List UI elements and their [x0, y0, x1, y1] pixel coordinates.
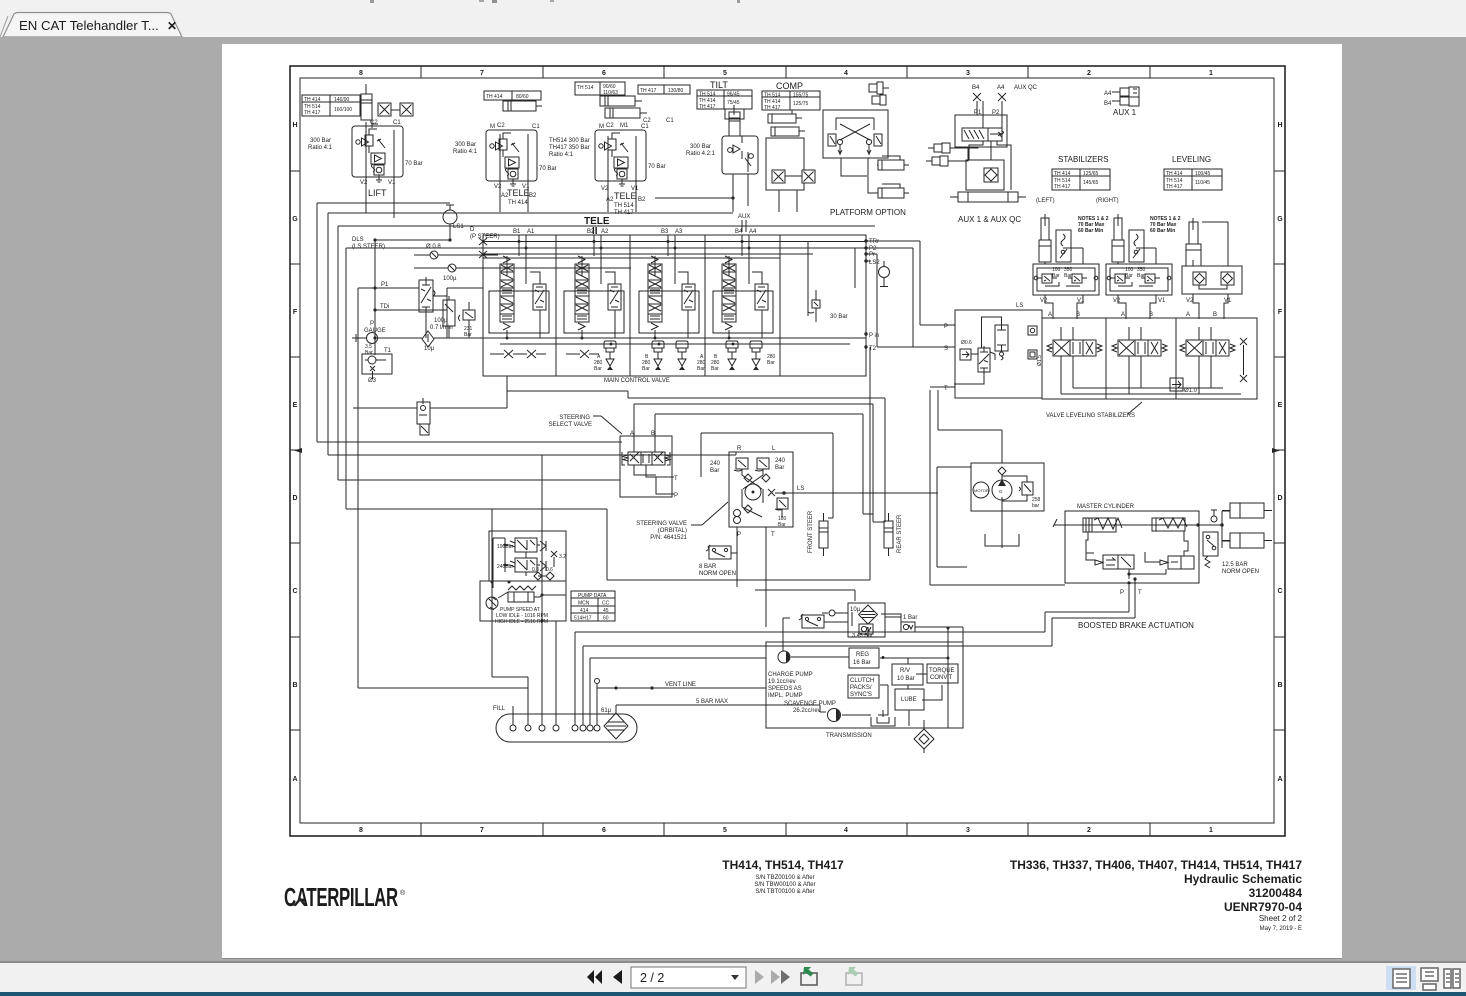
table TELE2 b	[638, 85, 690, 94]
solenoid valve lift 1	[378, 103, 391, 116]
priority box	[955, 310, 1042, 398]
svg-text:H: H	[1277, 122, 1282, 129]
svg-text:C1: C1	[641, 124, 649, 130]
long return wires left	[492, 241, 920, 621]
svg-text:(ORBITAL): (ORBITAL)	[658, 528, 687, 534]
wire T2 down	[607, 347, 870, 580]
wire TDi	[375, 310, 447, 338]
svg-text:A: A	[630, 431, 634, 437]
svg-text:FRONT STEER: FRONT STEER	[808, 510, 814, 553]
svg-text:155/75: 155/75	[793, 93, 809, 99]
wire t6 vertical P1 feed	[374, 255, 376, 355]
svg-text:70 Bar: 70 Bar	[648, 164, 666, 170]
MCV section 2 spool	[575, 256, 589, 330]
wires tele2 down	[608, 136, 636, 212]
wire from DLS to LS1	[375, 240, 450, 255]
stabilizer left port labels	[1040, 298, 1085, 318]
vent fitting	[822, 608, 848, 622]
svg-text:MAIN CONTROL VALVE: MAIN CONTROL VALVE	[604, 378, 670, 384]
svg-text:Bar: Bar	[767, 360, 775, 366]
svg-text:P/N: 4641521: P/N: 4641521	[650, 535, 687, 541]
vent pressure switch	[799, 614, 824, 628]
svg-text:PUMP DATA: PUMP DATA	[578, 593, 607, 599]
REG box	[849, 648, 879, 668]
orbital relief 1	[734, 458, 748, 471]
svg-text:B2: B2	[587, 229, 595, 235]
svg-text:A: A	[1186, 312, 1190, 318]
MCV section 1 compensator	[533, 284, 546, 310]
tele1 cylinder	[503, 101, 542, 111]
svg-text:100µ: 100µ	[434, 318, 448, 324]
orbital LS wire	[775, 492, 938, 494]
svg-text:A3: A3	[675, 229, 683, 235]
svg-text:Ratio 4:1: Ratio 4:1	[453, 149, 478, 155]
orbital valve box	[729, 452, 793, 527]
MCV port dots	[864, 239, 867, 348]
svg-text:70 Bar: 70 Bar	[405, 161, 423, 167]
notes text 2	[1150, 216, 1181, 234]
svg-text:V1: V1	[388, 180, 396, 186]
svg-text:V1: V1	[1158, 298, 1166, 304]
svg-text:Bar: Bar	[775, 465, 784, 471]
svg-text:V2: V2	[360, 180, 368, 186]
table COMP	[762, 91, 820, 110]
svg-text:Bar: Bar	[1052, 273, 1060, 279]
switch connector	[824, 612, 852, 626]
orbital relief 2	[755, 458, 769, 471]
svg-text:514H17: 514H17	[574, 616, 592, 622]
svg-text:STEERING: STEERING	[559, 415, 590, 421]
wire sn4	[701, 433, 833, 518]
svg-text:TH 514: TH 514	[764, 93, 781, 99]
MCV bottom rails	[483, 338, 866, 344]
MCV section 3 sub-box	[639, 291, 699, 333]
wire P2 TRr to priority	[866, 241, 920, 347]
svg-text:TH417 350 Bar: TH417 350 Bar	[549, 145, 590, 151]
svg-text:B: B	[292, 682, 297, 689]
orbital inlet circles	[734, 510, 741, 524]
MCV section 2 compensator	[608, 284, 621, 310]
motor pump box	[971, 463, 1044, 511]
svg-text:Bar: Bar	[365, 350, 373, 356]
wire MCV inlet left	[375, 288, 483, 355]
table TELE2 a	[575, 82, 625, 95]
MCV right side 30Bar relief	[808, 290, 820, 322]
svg-text:125/75: 125/75	[793, 101, 809, 107]
leveling cylinder	[1186, 218, 1201, 266]
platform cylinder 1	[878, 156, 909, 170]
stab left directional valve	[1047, 340, 1102, 356]
svg-text:5: 5	[723, 827, 727, 834]
svg-text:V2: V2	[1186, 298, 1194, 304]
svg-text:Ø1.0: Ø1.0	[1184, 388, 1198, 394]
svg-text:E: E	[1278, 402, 1283, 409]
comp cylinders	[768, 110, 805, 136]
MCV right port labels	[869, 239, 880, 352]
label P S T	[944, 324, 948, 392]
stabilizer right port labels	[1113, 298, 1166, 318]
svg-text:TH 514: TH 514	[577, 85, 594, 91]
accumulator 1	[1222, 503, 1272, 518]
svg-text:REG: REG	[856, 652, 869, 658]
platform option valve box	[823, 110, 888, 158]
svg-text:A: A	[1277, 776, 1282, 783]
bottom toolbar	[0, 963, 1466, 992]
motor circle	[973, 482, 989, 498]
svg-text:S/N TBW00100 & After: S/N TBW00100 & After	[754, 882, 815, 888]
svg-text:300 Bar: 300 Bar	[310, 138, 331, 144]
manifold internal wires	[1061, 327, 1241, 394]
svg-text:C1: C1	[393, 120, 401, 126]
svg-text:Ø3: Ø3	[368, 378, 377, 384]
svg-text:2: 2	[1087, 827, 1091, 834]
svg-text:100/45: 100/45	[1195, 171, 1211, 177]
svg-text:3: 3	[966, 827, 970, 834]
svg-text:TRr: TRr	[869, 239, 879, 245]
svg-text:TRANSMISSION: TRANSMISSION	[826, 733, 872, 739]
svg-text:B: B	[651, 431, 655, 437]
brake box dots	[491, 544, 544, 623]
steering select spool	[622, 452, 670, 465]
rear steer cylinder	[884, 513, 893, 556]
table LEVELING	[1164, 169, 1222, 190]
comp valve box	[766, 138, 804, 190]
wire return 2	[583, 600, 1135, 725]
svg-text:4: 4	[844, 827, 848, 834]
stabilizer left wires	[1045, 248, 1083, 319]
pointer	[593, 416, 622, 434]
orifice diamonds 0.8 0.6	[534, 572, 554, 580]
schematic border frame	[290, 66, 1285, 836]
brake light switch 8bar	[706, 545, 731, 559]
gerotor dot	[752, 491, 755, 494]
svg-text:P1: P1	[974, 110, 982, 116]
wire cyl to valves	[372, 110, 400, 128]
steering select T P wires	[646, 473, 674, 494]
svg-text:G: G	[999, 489, 1003, 494]
MCV port relief A2	[604, 341, 616, 370]
svg-text:Bar: Bar	[594, 366, 602, 372]
vent wires	[755, 590, 963, 637]
MCV inlet X marks	[479, 238, 487, 258]
svg-text:A2: A2	[601, 229, 609, 235]
MCV section 2 wires	[582, 235, 615, 338]
wire t2	[328, 213, 736, 455]
tank filter diamond	[604, 713, 628, 739]
svg-text:(P STEER): (P STEER)	[470, 234, 500, 240]
junction dots left	[373, 238, 451, 339]
lift control valve body	[352, 126, 403, 182]
acc valve circle	[1211, 510, 1217, 522]
svg-text:TH 414: TH 414	[1166, 171, 1183, 177]
filter 0.7 lmin	[443, 296, 455, 338]
labels M C2 M1 C1 tele2	[599, 123, 649, 130]
comp solenoid 1	[772, 170, 785, 183]
comp solenoid 2	[802, 170, 815, 183]
tank inlet wires	[492, 600, 1135, 725]
svg-text:TH 417: TH 417	[1054, 184, 1071, 190]
leveling wires	[1193, 222, 1228, 319]
svg-text:A1: A1	[527, 229, 535, 235]
svg-text:Pr: Pr	[869, 252, 875, 258]
svg-text:D: D	[292, 495, 297, 502]
svg-text:75/45: 75/45	[727, 100, 740, 106]
svg-text:1: 1	[1209, 70, 1213, 77]
svg-text:Ø0.6: Ø0.6	[961, 340, 972, 346]
svg-text:8: 8	[359, 70, 363, 77]
svg-text:TH 514: TH 514	[614, 203, 634, 209]
orbital bottom check	[744, 505, 752, 513]
svg-text:8 BAR: 8 BAR	[699, 564, 717, 570]
wire drain valve	[541, 621, 543, 725]
svg-text:0.8: 0.8	[532, 567, 539, 573]
svg-text:LS: LS	[797, 486, 804, 492]
labels C2 C1 tele2 cyl	[643, 118, 674, 124]
MCV port relief A3b	[676, 341, 688, 370]
MCV port relief B3	[652, 341, 664, 370]
labels tele2 ports	[601, 186, 646, 203]
svg-text:(RIGHT): (RIGHT)	[1096, 198, 1119, 204]
table STABILIZERS	[1052, 169, 1110, 190]
svg-text:7: 7	[480, 70, 484, 77]
svg-text:6: 6	[602, 827, 606, 834]
svg-text:G: G	[1277, 216, 1283, 223]
svg-text:S/N TBT00100 & After: S/N TBT00100 & After	[755, 889, 814, 895]
aux pipes	[742, 220, 746, 232]
svg-text:AUX: AUX	[738, 214, 750, 220]
orbital relief 180	[775, 498, 788, 517]
aux qc base plates	[950, 192, 1026, 202]
svg-text:Bar: Bar	[778, 522, 786, 528]
transmission dots	[882, 627, 950, 660]
svg-text:TDi: TDi	[380, 304, 389, 310]
svg-text:5 BAR MAX: 5 BAR MAX	[696, 699, 728, 705]
svg-text:M1: M1	[620, 123, 629, 129]
filter diamond 10u	[859, 605, 878, 624]
svg-text:SYNC'S: SYNC'S	[850, 692, 872, 698]
svg-text:146/90: 146/90	[334, 97, 350, 103]
filter 10u	[398, 331, 624, 347]
MCV port relief B4	[750, 341, 762, 370]
svg-text:Bar: Bar	[1064, 273, 1072, 279]
svg-text:4: 4	[844, 70, 848, 77]
svg-text:Ratio 4:1: Ratio 4:1	[549, 152, 574, 158]
LS2 gauge	[879, 261, 890, 287]
orbital cross wires	[742, 469, 763, 517]
svg-text:C2: C2	[370, 120, 378, 126]
svg-text:19.1cc/rev: 19.1cc/rev	[768, 679, 796, 685]
solenoid valve 240bar	[510, 558, 537, 572]
svg-text:TH 417: TH 417	[640, 88, 657, 94]
switch to P wire	[731, 552, 737, 554]
svg-text:C2: C2	[606, 123, 614, 129]
MCV section 4 compensator	[755, 284, 768, 310]
stabilizer left cylinder	[1039, 214, 1051, 262]
svg-text:TH 514: TH 514	[699, 92, 716, 98]
master cylinder box	[1065, 511, 1199, 583]
leveling block	[1182, 266, 1242, 294]
svg-text:LEVELING: LEVELING	[1172, 155, 1211, 164]
svg-text:TH 414: TH 414	[304, 97, 321, 103]
svg-text:P in: P in	[869, 333, 879, 339]
svg-text:V1: V1	[1224, 298, 1232, 304]
svg-text:P: P	[370, 321, 374, 327]
svg-text:P: P	[737, 532, 741, 538]
svg-text:Bar: Bar	[711, 366, 719, 372]
svg-text:Bar: Bar	[697, 366, 705, 372]
svg-text:TORQUE: TORQUE	[929, 668, 955, 674]
svg-text:26.2cc/rev: 26.2cc/rev	[793, 708, 821, 714]
MCV shutoff X 3	[566, 350, 599, 358]
svg-text:Bar: Bar	[1137, 273, 1145, 279]
svg-text:T: T	[1138, 590, 1142, 596]
MCV section 4 wires	[729, 235, 762, 338]
pump lower box	[480, 581, 566, 621]
junction dots tank	[614, 686, 653, 689]
svg-text:60 Bar Min: 60 Bar Min	[1078, 228, 1103, 234]
AUX1 fitting A4	[1104, 87, 1139, 97]
svg-text:CONV'T: CONV'T	[930, 675, 952, 681]
tank body	[496, 714, 637, 742]
wire t4	[346, 248, 607, 580]
MCV port labels top	[513, 229, 757, 235]
svg-text:240: 240	[775, 458, 786, 464]
svg-text:80/60: 80/60	[516, 94, 529, 100]
aux qc directional valve	[962, 128, 1004, 141]
svg-text:B2: B2	[529, 193, 537, 199]
svg-text:C: C	[1277, 588, 1282, 595]
svg-text:B4: B4	[972, 85, 980, 91]
tele1 valve body	[486, 130, 537, 186]
svg-text:TH 417: TH 417	[699, 104, 716, 110]
svg-text:MOTOR: MOTOR	[974, 488, 989, 493]
acc trunk	[1199, 511, 1230, 548]
svg-text:Bar: Bar	[642, 366, 650, 372]
svg-text:SPEEDS AS: SPEEDS AS	[768, 686, 802, 692]
svg-text:45: 45	[603, 608, 609, 614]
svg-text:M: M	[599, 124, 604, 130]
LUBE box	[895, 689, 924, 710]
transmission box	[766, 642, 963, 728]
svg-text:CC: CC	[602, 601, 610, 607]
X plug top	[1240, 338, 1247, 375]
brake valve outer box	[489, 531, 566, 581]
notes text 1	[1078, 216, 1109, 234]
wire scavenge to sump	[842, 710, 883, 717]
svg-text:Ø 0.8: Ø 0.8	[426, 244, 441, 250]
gerotor circle	[745, 484, 761, 500]
svg-text:BOOSTED BRAKE ACTUATION: BOOSTED BRAKE ACTUATION	[1078, 621, 1194, 630]
svg-text:3.2: 3.2	[559, 554, 566, 560]
svg-text:8: 8	[359, 827, 363, 834]
aux qc quick couplers	[926, 143, 950, 166]
platform cylinder 2	[868, 165, 909, 198]
svg-text:V2: V2	[494, 184, 502, 190]
svg-text:STEERING VALVE: STEERING VALVE	[636, 521, 687, 527]
svg-text:✕: ✕	[167, 19, 177, 33]
svg-text:AUX 1: AUX 1	[1113, 108, 1137, 117]
svg-text:96/45: 96/45	[727, 92, 740, 98]
svg-text:6: 6	[602, 70, 606, 77]
wire return 1	[575, 600, 1129, 725]
relief small 2	[540, 561, 546, 571]
wire from charge area up	[783, 618, 790, 651]
manifold box	[1042, 318, 1257, 399]
pressure switch 12.5	[1203, 532, 1218, 568]
svg-text:145/65: 145/65	[1083, 180, 1099, 186]
svg-text:60 Bar Min: 60 Bar Min	[1150, 228, 1175, 234]
stab right directional valve	[1112, 340, 1167, 356]
wire P1 to valve	[375, 288, 447, 296]
svg-text:P2: P2	[992, 110, 1000, 116]
wire t5	[358, 288, 528, 688]
svg-text:R/V: R/V	[900, 668, 910, 674]
MCV right verticals	[808, 241, 855, 316]
aux qc labels P1 P2	[974, 110, 1000, 116]
stabilizer right wires	[1118, 248, 1156, 319]
svg-text:125/65: 125/65	[1083, 171, 1099, 177]
svg-text:A4: A4	[997, 85, 1005, 91]
tilt valve body	[722, 136, 758, 174]
CLUTCH box	[848, 675, 879, 698]
svg-text:160/100: 160/100	[334, 107, 352, 113]
wire from brake box right	[542, 594, 566, 596]
table TILT	[697, 90, 752, 109]
MCV shutoff X 2	[523, 350, 546, 358]
svg-text:B1: B1	[513, 229, 521, 235]
svg-text:TELE: TELE	[614, 191, 637, 201]
orifice 1.0	[1170, 378, 1183, 391]
solenoid valve lift 2	[400, 103, 413, 116]
svg-text:D: D	[470, 227, 475, 233]
svg-text:Bar: Bar	[1125, 273, 1133, 279]
stabilizer right holding block	[1106, 264, 1172, 295]
svg-text:P1: P1	[381, 282, 389, 288]
svg-text:240: 240	[710, 461, 721, 467]
svg-text:60: 60	[603, 616, 609, 622]
wire pump to tank	[1001, 475, 1003, 548]
platform internals	[828, 118, 882, 155]
rail junction dots	[506, 240, 751, 346]
tele2 valve body	[595, 130, 646, 186]
svg-text:P: P	[674, 493, 678, 499]
5bar wire	[616, 705, 826, 713]
svg-text:®: ®	[400, 889, 406, 897]
wires tilt down	[655, 174, 748, 212]
svg-text:A2: A2	[606, 197, 614, 203]
svg-text:(LEFT): (LEFT)	[1036, 198, 1055, 204]
scavenge pump circle	[828, 709, 841, 722]
orbital P T wires	[737, 527, 766, 627]
svg-text:CLUTCH: CLUTCH	[850, 678, 874, 684]
svg-text:PLATFORM OPTION: PLATFORM OPTION	[830, 208, 906, 217]
svg-text:TH336, TH337, TH406, TH407, TH: TH336, TH337, TH406, TH407, TH414, TH514…	[1010, 858, 1302, 872]
svg-text:A4: A4	[1104, 91, 1112, 97]
svg-text:T1: T1	[384, 348, 392, 354]
pump circle b	[992, 479, 1012, 500]
tank ports	[510, 725, 600, 731]
svg-text:Sheet 2 of 2: Sheet 2 of 2	[1259, 914, 1303, 923]
svg-text:5: 5	[723, 70, 727, 77]
svg-text:TH 414: TH 414	[1054, 171, 1071, 177]
tilt cylinder	[725, 105, 744, 136]
tele2 cylinders	[600, 96, 647, 118]
wire drain t	[555, 621, 557, 725]
frame direction arrows	[294, 448, 1280, 453]
svg-text:T: T	[771, 532, 775, 538]
wire fill	[512, 706, 514, 725]
svg-text:70 Bar: 70 Bar	[539, 166, 557, 172]
